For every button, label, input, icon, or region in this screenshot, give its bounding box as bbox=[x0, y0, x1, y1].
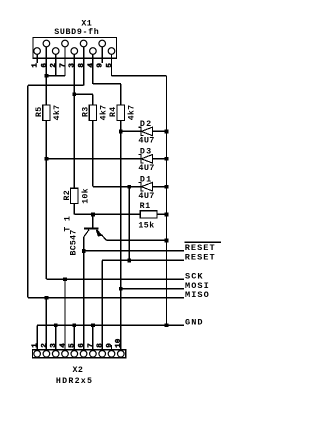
wire X1 pin7 drop bbox=[64, 47, 66, 76]
svg-text:9: 9 bbox=[106, 343, 114, 348]
junction MOSI / rail bbox=[119, 287, 123, 291]
svg-text:4U7: 4U7 bbox=[138, 136, 154, 146]
wire R4 top bbox=[120, 84, 122, 105]
connector X2 HDR2x5 bbox=[32, 350, 125, 358]
junction D3 left bbox=[45, 157, 49, 161]
wire X2 pin8 riser bbox=[101, 260, 103, 349]
diode D1 (zener) bbox=[138, 183, 152, 191]
svg-text:SCK: SCK bbox=[185, 272, 204, 282]
svg-text:7: 7 bbox=[87, 343, 95, 348]
svg-text:6: 6 bbox=[78, 343, 86, 348]
svg-text:R1: R1 bbox=[140, 202, 151, 211]
svg-text:RESET: RESET bbox=[185, 243, 216, 253]
junction GND rail / GND row bbox=[165, 323, 169, 327]
wire bus pins 6-2-7 bbox=[46, 75, 65, 77]
junction SCK / X2 pin4 bbox=[63, 277, 67, 281]
junction collector / /RESET bbox=[82, 249, 86, 253]
junction D2 left bbox=[119, 130, 123, 134]
svg-text:R3: R3 bbox=[81, 107, 90, 117]
junction MISO / X2 pin2 bbox=[45, 296, 49, 300]
svg-text:8: 8 bbox=[97, 343, 105, 348]
wire X2 pin5 riser bbox=[73, 325, 75, 349]
svg-text:8: 8 bbox=[78, 63, 86, 68]
transistor T1 BC547 bbox=[84, 214, 107, 240]
svg-text:R4: R4 bbox=[109, 107, 118, 117]
svg-text:4k7: 4k7 bbox=[127, 105, 137, 121]
junction RESET rail / RESET row bbox=[127, 259, 131, 263]
junction D2 right bbox=[165, 130, 169, 134]
wire X1 pin8 drop bbox=[83, 47, 85, 86]
svg-text:BC547: BC547 bbox=[70, 229, 79, 255]
wire X1 pin6 drop bbox=[45, 47, 47, 76]
wire X2 pin3 riser bbox=[55, 325, 57, 349]
svg-text:5: 5 bbox=[106, 63, 114, 68]
diode D3 (zener) bbox=[138, 155, 152, 163]
wire R3 bottom to D1 row bbox=[92, 121, 94, 187]
junction emitter / GND rail bbox=[165, 239, 169, 243]
svg-text:RESET: RESET bbox=[185, 252, 216, 262]
svg-text:10k: 10k bbox=[80, 188, 90, 204]
wire RESET rail bbox=[128, 187, 130, 261]
wire R2 bottom bbox=[73, 203, 75, 214]
svg-text:2: 2 bbox=[50, 63, 58, 68]
svg-text:15k: 15k bbox=[138, 221, 154, 231]
wire GND row bbox=[37, 324, 184, 326]
svg-text:1: 1 bbox=[32, 63, 40, 68]
wire X1 pin4 drop bbox=[92, 54, 94, 84]
resistor R1 bbox=[140, 211, 157, 218]
wire R5 top bbox=[45, 76, 47, 105]
svg-text:4U7: 4U7 bbox=[138, 191, 154, 201]
wire SCK row bbox=[46, 278, 183, 280]
wire pin8 to left rail bbox=[28, 84, 84, 86]
junction GND / X2 pin7 bbox=[91, 323, 95, 327]
wire base row bbox=[74, 213, 166, 215]
svg-text:7: 7 bbox=[59, 63, 67, 68]
junction D1 / RESET rail bbox=[127, 185, 131, 189]
wire rail R4 bottom to X2 pin10 bbox=[120, 121, 122, 350]
resistor R4 bbox=[117, 105, 124, 121]
wire D2 row bbox=[121, 130, 167, 132]
wire MOSI row bbox=[121, 288, 184, 290]
svg-text:T 1: T 1 bbox=[63, 216, 72, 232]
wire RESET row bbox=[102, 259, 184, 261]
wire X1 pin9 stub bbox=[101, 47, 103, 63]
svg-text:2: 2 bbox=[41, 343, 49, 348]
wire X2 pin2 riser bbox=[45, 298, 47, 350]
wire X1 pin1 stub bbox=[36, 54, 38, 63]
wire D3 row bbox=[46, 158, 166, 160]
junction GND / X2 pin5 bbox=[72, 323, 76, 327]
diode D2 (zener) bbox=[138, 127, 152, 135]
svg-text:4k7: 4k7 bbox=[52, 105, 62, 121]
wire X1 pin3 drop bbox=[73, 54, 75, 188]
connector X1 SUBD9-fh bbox=[33, 38, 117, 59]
svg-text:5: 5 bbox=[69, 343, 77, 348]
wire T1 emitter row bbox=[107, 239, 167, 241]
wire X2 pin9 stub bbox=[111, 345, 113, 350]
svg-text:D1: D1 bbox=[140, 174, 152, 184]
svg-text:X2: X2 bbox=[73, 366, 84, 375]
svg-text:4: 4 bbox=[59, 343, 67, 348]
junction D1 right bbox=[165, 185, 169, 189]
junction base row / T1 base bbox=[91, 213, 95, 217]
svg-text:D3: D3 bbox=[140, 147, 152, 157]
svg-text:3: 3 bbox=[69, 63, 77, 68]
wire D1 row bbox=[93, 186, 167, 188]
wire /RESET row bbox=[84, 250, 184, 252]
net label /RESET (overline) bbox=[185, 242, 221, 253]
svg-text:SUBD9-fh: SUBD9-fh bbox=[54, 27, 99, 37]
resistor R2 bbox=[71, 188, 78, 203]
wire R3 branch horizontal bbox=[74, 93, 93, 95]
wire pin4 to R4 bbox=[93, 83, 121, 85]
wire X2 pin7 riser bbox=[92, 325, 94, 349]
wire pin5 to right rail bbox=[112, 75, 167, 77]
wire left rail bbox=[27, 85, 29, 297]
wire X1 pin2 drop bbox=[55, 54, 57, 76]
svg-text:4: 4 bbox=[87, 63, 95, 68]
wire X2 pin1 riser bbox=[36, 325, 38, 349]
resistor R3 bbox=[89, 105, 96, 121]
wire X1 pin5 drop bbox=[111, 54, 113, 76]
svg-text:10: 10 bbox=[115, 338, 123, 348]
svg-text:R2: R2 bbox=[63, 190, 72, 200]
wire R5 bottom rail bbox=[45, 121, 47, 280]
svg-text:HDR2x5: HDR2x5 bbox=[56, 377, 93, 386]
wire right rail (GND) bbox=[166, 76, 168, 325]
junction GND / X2 pin3 bbox=[54, 323, 58, 327]
wire X2 pin4 riser bbox=[64, 279, 66, 349]
svg-text:1: 1 bbox=[32, 343, 40, 348]
junction D3 right bbox=[165, 157, 169, 161]
junction pins 6/2/7 bbox=[45, 74, 49, 78]
svg-text:9: 9 bbox=[97, 63, 105, 68]
wire R3 top bbox=[92, 94, 94, 105]
resistor R5 bbox=[43, 105, 50, 121]
svg-text:MISO: MISO bbox=[185, 290, 210, 300]
svg-text:6: 6 bbox=[41, 63, 49, 68]
wire MISO row bbox=[28, 297, 184, 299]
svg-text:GND: GND bbox=[185, 318, 204, 328]
svg-text:3: 3 bbox=[50, 343, 58, 348]
svg-text:4k7: 4k7 bbox=[99, 105, 109, 121]
svg-text:R5: R5 bbox=[35, 107, 44, 117]
wire T1 collector to X2 pin6 bbox=[83, 237, 85, 350]
svg-text:4U7: 4U7 bbox=[138, 163, 154, 173]
junction R1 right bbox=[165, 213, 169, 217]
junction pin3 / R3 branch bbox=[72, 92, 76, 96]
svg-text:D2: D2 bbox=[140, 119, 152, 129]
